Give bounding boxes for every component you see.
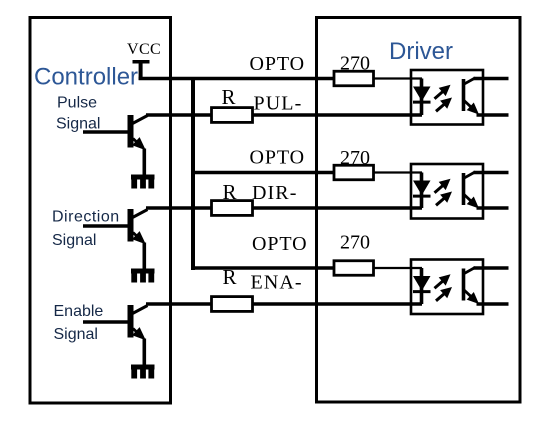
transistor Q3 base bar (128, 305, 134, 338)
svg-text:Enable: Enable (54, 303, 104, 320)
svg-text:ENA-: ENA- (251, 272, 303, 294)
svg-text:Signal: Signal (54, 326, 98, 343)
transistor Q1 base bar (128, 115, 134, 148)
optocoupler U1 phototransistor emitter arrow (464, 100, 472, 108)
optocoupler U1 phototransistor collector (463, 78, 475, 85)
wire resistor R2 to optocoupler cathode (252, 206, 422, 210)
optocoupler U1 collector output wire (474, 77, 509, 81)
optocoupler U2 light arrow 2 (436, 197, 445, 205)
optocoupler U3 light arrow 1 (435, 280, 444, 288)
optocoupler U3 LED cathode bar (413, 290, 431, 293)
optocoupler U2 phototransistor collector (463, 172, 475, 179)
optocoupler U2 phototransistor emitter arrow (464, 194, 472, 202)
wire emitter to ground Q2 (143, 243, 147, 271)
wire resistor R3 to optocoupler cathode (252, 302, 422, 306)
svg-text:VCC: VCC (127, 41, 161, 58)
transistor Q2 emitter arrow (133, 233, 137, 237)
svg-text:Driver: Driver (389, 38, 453, 65)
optocoupler U1 LED vertical conductor (420, 79, 424, 116)
wire R6 to optocoupler anode (thin) (374, 267, 422, 269)
wire base input Q2 (83, 224, 131, 228)
svg-text:OPTO: OPTO (250, 147, 305, 169)
optocoupler U2 phototransistor bar (462, 173, 466, 205)
svg-text:Signal: Signal (52, 232, 96, 249)
wire R5 to optocoupler anode (thin) (374, 171, 422, 173)
optocoupler U1 LED cathode bar (413, 101, 431, 104)
svg-text:R: R (222, 85, 236, 109)
transistor Q1 collector diagonal (133, 116, 148, 124)
svg-text:Controller: Controller (34, 63, 138, 90)
svg-text:Pulse: Pulse (57, 95, 97, 112)
resistor R3 (212, 297, 253, 312)
optocoupler U2 LED vertical conductor (420, 173, 424, 209)
optocoupler U3 LED triangle (413, 276, 431, 291)
resistor R2 (212, 201, 253, 216)
wire vertical bus from OPTO1 down to OPTO3 (191, 79, 195, 271)
wire transistor collector to resistor R3 (146, 302, 212, 306)
ground symbol Q2 (131, 269, 155, 274)
optocoupler U1 box (411, 70, 483, 125)
driver box (317, 18, 521, 403)
wire resistor R1 to optocoupler cathode (252, 113, 422, 117)
svg-text:R: R (223, 265, 237, 289)
optocoupler U3 LED vertical conductor (420, 268, 424, 304)
wire transistor collector to resistor R2 (146, 206, 212, 210)
transistor Q2 base bar (128, 209, 134, 242)
optocoupler U1 phototransistor bar (462, 79, 466, 111)
resistor R6 270 ohm (334, 261, 374, 276)
transistor Q3 collector diagonal (133, 306, 148, 314)
optocoupler U3 light arrow 2 (436, 293, 445, 301)
optocoupler U3 collector output wire (474, 266, 509, 270)
optocoupler U2 LED triangle (413, 181, 431, 196)
optocoupler U1 light arrow 2 (436, 103, 445, 111)
optocoupler U3 emitter output wire (477, 302, 509, 306)
resistor R5 270 ohm (334, 165, 374, 180)
svg-text:PUL-: PUL- (254, 93, 303, 115)
ground symbol Q1 (131, 175, 155, 180)
optocoupler U1 light arrow 1 (435, 91, 444, 99)
controller box (30, 18, 171, 404)
optocoupler U1 LED triangle (413, 87, 431, 102)
wire transistor collector to resistor R1 (146, 113, 212, 117)
wire emitter to ground Q3 (143, 339, 147, 367)
optocoupler U3 phototransistor bar (462, 269, 466, 301)
optocoupler U2 light arrow 1 (435, 185, 444, 193)
svg-text:OPTO: OPTO (250, 53, 305, 75)
resistor R1 (212, 108, 253, 123)
svg-text:OPTO: OPTO (252, 233, 307, 255)
resistor R4 270 ohm (334, 71, 374, 86)
wire base input Q3 (83, 320, 131, 324)
wire R4 to optocoupler anode (thin) (374, 77, 422, 79)
optocoupler U2 LED cathode bar (413, 195, 431, 198)
wire OPTO3 horizontal from bus (191, 266, 334, 270)
optocoupler U3 phototransistor collector (463, 267, 475, 274)
optocoupler U2 collector output wire (474, 171, 509, 175)
optocoupler U2 box (411, 164, 483, 219)
power VCC symbol (133, 60, 150, 64)
wire VCC to OPTO1 horizontal (139, 77, 334, 81)
svg-text:Signal: Signal (56, 116, 100, 133)
optocoupler U3 phototransistor emitter arrow (464, 290, 472, 298)
optocoupler U3 box (411, 260, 483, 315)
svg-text:DIR-: DIR- (252, 182, 298, 204)
transistor Q3 emitter arrow (133, 329, 137, 333)
svg-text:270: 270 (340, 231, 370, 253)
transistor Q1 emitter arrow (133, 139, 137, 143)
ground symbol Q3 (131, 365, 155, 370)
transistor Q2 collector diagonal (133, 210, 148, 218)
svg-text:Direction: Direction (52, 209, 120, 226)
optocoupler U1 emitter output wire (477, 113, 509, 117)
wire base input Q1 (83, 130, 131, 134)
wire emitter to ground Q1 (143, 149, 147, 177)
optocoupler U2 emitter output wire (477, 206, 509, 210)
wire OPTO2 horizontal from bus (191, 171, 334, 175)
